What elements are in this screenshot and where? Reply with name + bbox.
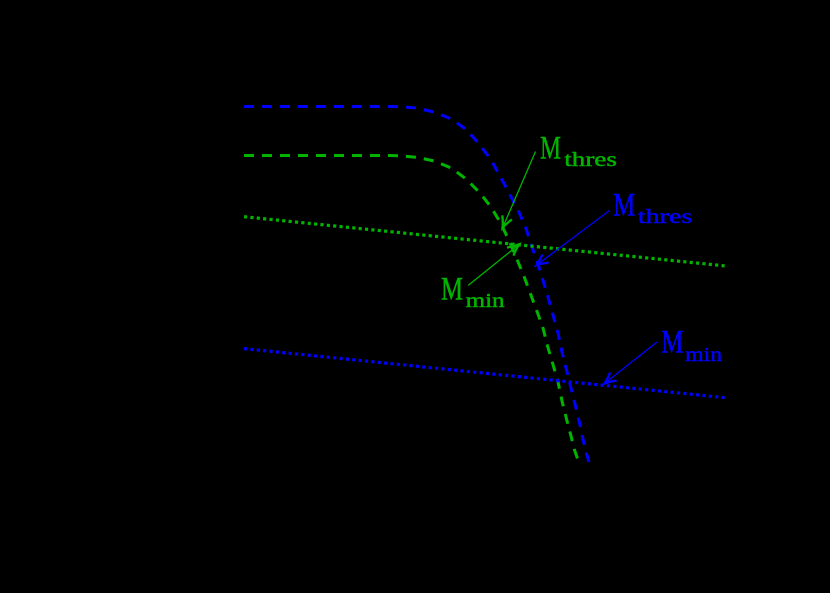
blue dashed curve — [244, 107, 589, 463]
green dashed curve — [244, 156, 578, 461]
blue arrow C (M_thres label to blue dashed curve) — [537, 211, 610, 266]
blue dotted line — [244, 349, 728, 398]
blue arrow D (M_min label to blue dotted line) — [605, 342, 658, 384]
green arrow A (M_thres label to green dashed curve) — [503, 152, 536, 228]
green arrow B (M_min label to green dotted line) — [468, 245, 519, 286]
green dotted line — [244, 217, 728, 267]
